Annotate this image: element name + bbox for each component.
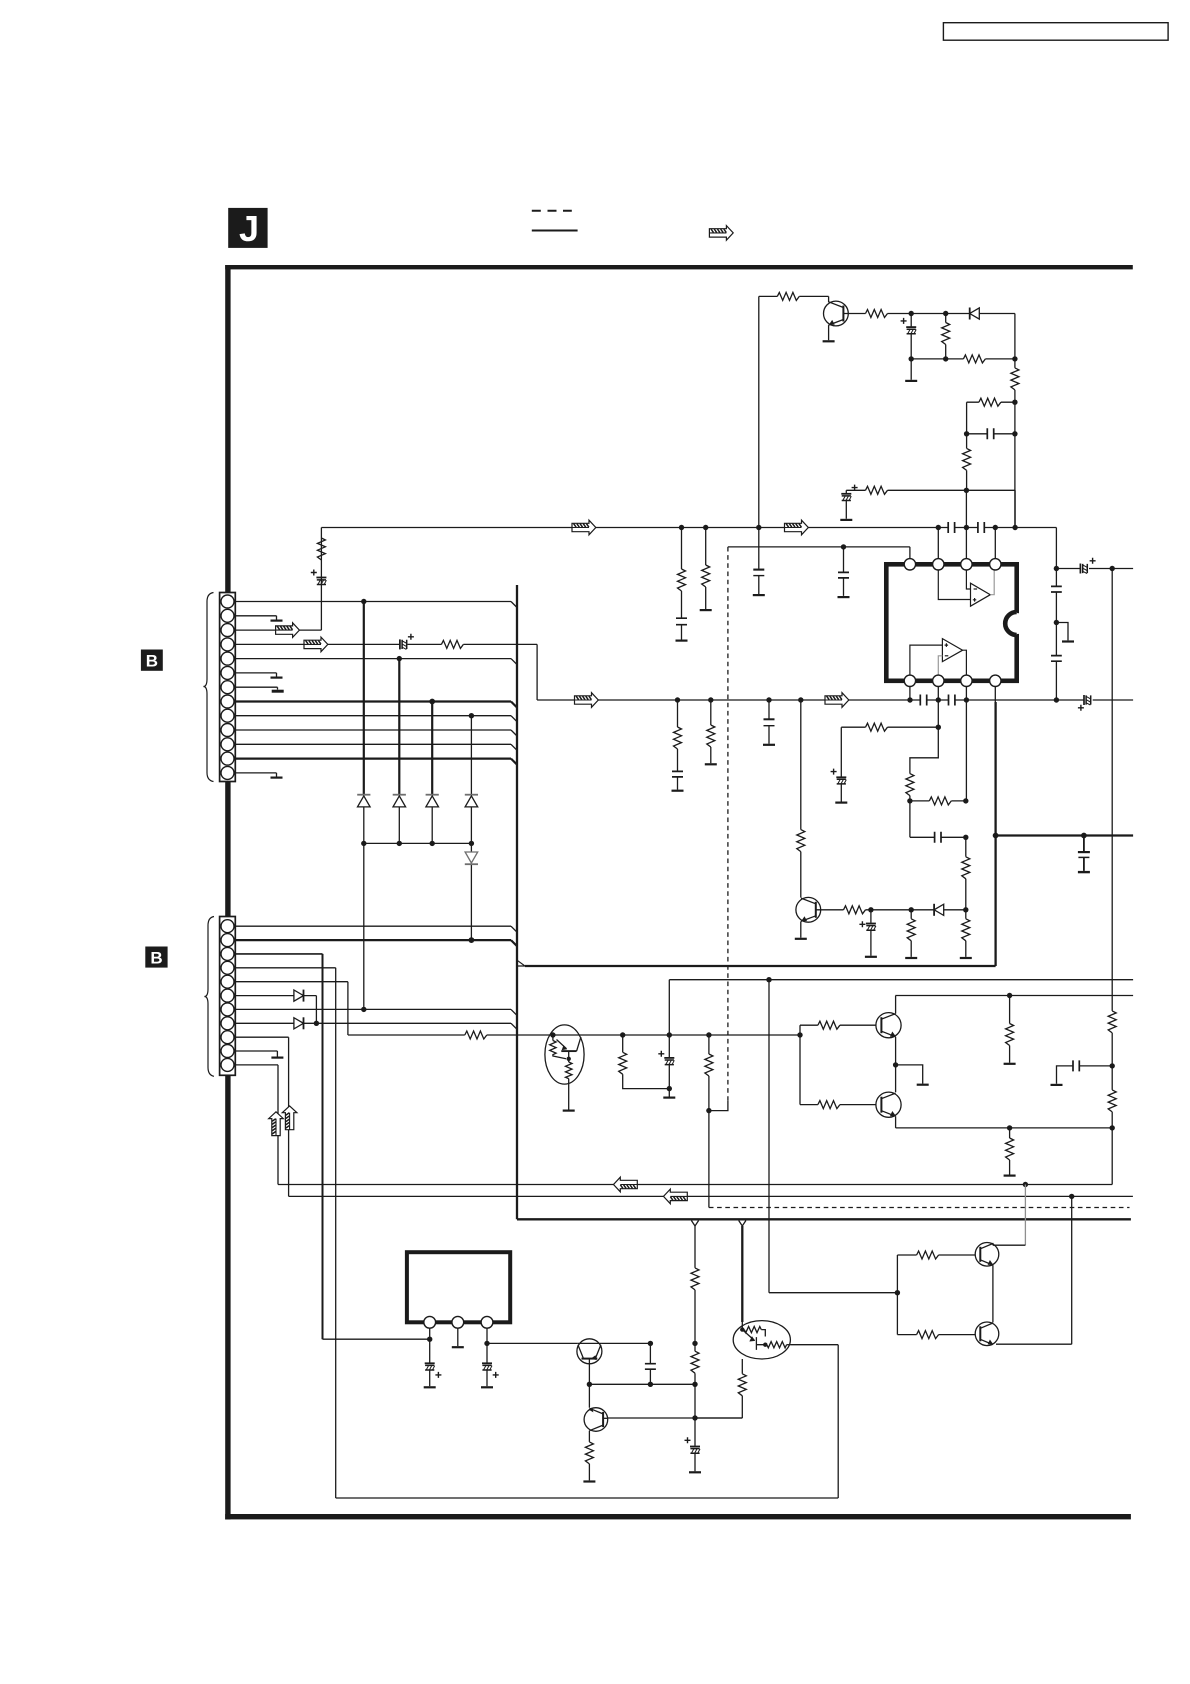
transistor Q6 xyxy=(796,897,844,922)
vertical wire from pin5 node xyxy=(398,659,400,794)
Q8 emitter to wire y=1127.9 xyxy=(895,1116,897,1128)
cap C14 in wire y=433.8 xyxy=(964,428,1015,439)
brace for connector B2 xyxy=(204,917,214,1077)
arrow left on wire y=1196.4 xyxy=(664,1189,688,1204)
vertical wire x=758.8 top xyxy=(758,296,760,527)
resistor R3 in wire y=490 xyxy=(866,486,888,494)
stub with bar at IC right xyxy=(1056,623,1074,642)
diode D7 (points left) xyxy=(970,308,980,320)
Q7 collector to rail xyxy=(895,996,897,1014)
wire segment xyxy=(431,807,433,844)
digital transistor Q2 (oval) xyxy=(733,1321,790,1359)
base ladder x=897.4 xyxy=(895,1255,900,1335)
resistor R2 in pin4 wire xyxy=(441,640,463,648)
wire B1 pin3 xyxy=(235,629,321,631)
wire y=1184.5 xyxy=(278,1182,1112,1187)
connector B2 pin circles xyxy=(221,920,234,1072)
wire segment xyxy=(470,807,472,844)
link Q11 emitter to Q12 xyxy=(588,1384,590,1407)
chain from IC pin2 bottom: x937 to x910 xyxy=(907,725,941,838)
branch x=669.3 down to cap xyxy=(668,980,670,1035)
resistor R27 chain at x=705.7 xyxy=(700,528,712,611)
arrow on wire y=700 left xyxy=(575,693,599,708)
IC notch xyxy=(1005,612,1027,635)
wire y=1127.9 xyxy=(896,1125,1115,1130)
electrolytic C1 (pin3 string) xyxy=(311,570,327,585)
long return wire y=1498 xyxy=(336,1497,839,1499)
connector B2 body xyxy=(220,917,236,1076)
wire B2 pin2 (bold) xyxy=(235,937,517,946)
wire B2 pin8 with diode D9 xyxy=(235,1017,517,1029)
link to Q9 collector xyxy=(993,1243,1026,1245)
wire Q6 base net xyxy=(866,907,934,912)
shield dashed line horizontal xyxy=(709,1207,1130,1209)
electrolytic C5 at x=846.3 xyxy=(840,485,857,520)
svg-text:B: B xyxy=(150,948,162,967)
vertical wire from pin9 node xyxy=(470,716,472,794)
diode D4 xyxy=(465,795,478,807)
rail y=1035 xyxy=(348,1032,803,1037)
series capacitor C29 y=837.3 xyxy=(910,832,966,843)
cap C15 at x=1083.9 xyxy=(1078,836,1090,873)
resistor R1 (pin3 string) xyxy=(317,528,325,631)
thick rail y=835.5 xyxy=(993,833,1133,839)
resistor R9 y=800.9 xyxy=(910,797,966,805)
vertical x=1112.2 long xyxy=(1111,569,1113,1011)
series cap C3 (IC top left) xyxy=(948,522,954,533)
wire y=1343.4 box pin3 to Q11 xyxy=(487,1341,698,1346)
resistor R22 at x=1112.2 upper xyxy=(1108,1011,1116,1069)
diode D2 xyxy=(393,795,406,807)
brace for connector B1 xyxy=(203,593,213,782)
wire B2 pin7 xyxy=(235,1007,517,1016)
Q9-Q10 link xyxy=(992,1265,994,1322)
wire B2 pin9 xyxy=(235,1037,288,1196)
Q6 emitter ground xyxy=(795,921,807,938)
Q5 emitter ground xyxy=(823,325,835,341)
IC U1 body xyxy=(886,564,1016,681)
transistor Q11 (rotated) xyxy=(577,1339,651,1385)
connector B1 body xyxy=(220,593,236,782)
resistor R28 + capacitor C27 chain at x=677.5 xyxy=(672,700,684,791)
wire y=1418 Q12 base xyxy=(608,1417,743,1419)
legend solid-line sample xyxy=(532,230,578,232)
wire diode to corner x=1014.9 xyxy=(979,314,1015,359)
electrolytic C12 at x=841.3 xyxy=(831,727,848,802)
IC pin leads top xyxy=(938,490,995,558)
wire y=979.7 xyxy=(669,977,1133,982)
label B (connector B2) xyxy=(145,947,167,968)
series cap C4 (IC top right) xyxy=(978,522,984,533)
label B (connector B1) xyxy=(141,650,163,671)
wire to x=965.8 xyxy=(944,909,966,911)
wire y=1344.2 to Q10 emitter xyxy=(996,1343,1072,1345)
wire y=1339.2 box pin1 xyxy=(323,1337,433,1342)
thick rail y=966 from bus xyxy=(517,960,996,966)
arrow on pin4 wire xyxy=(304,637,328,652)
arrow on pin3 wire xyxy=(276,623,300,638)
resistor R12 at x=945.7 xyxy=(942,314,950,359)
series cap C9 (IC bottom right) xyxy=(949,695,955,706)
diode D5 (points down) xyxy=(465,843,478,940)
vertical x=335.7 down xyxy=(335,968,337,1498)
cap C17 y=1065.9 with stub xyxy=(1051,1060,1113,1085)
resistor R11 at Q5 base xyxy=(866,310,888,318)
wire from x=769 down to base ladder xyxy=(769,980,897,1293)
wire B1 pin9 xyxy=(235,713,517,722)
thick lead to Q2 xyxy=(741,1226,743,1322)
resistor above transistor Q6 xyxy=(797,700,805,898)
arrow on wire y=527 left xyxy=(572,520,596,535)
IC op-amp B xyxy=(910,639,967,675)
shield dashed line vertical xyxy=(727,547,729,1101)
wire y=1196.4 xyxy=(289,1194,1133,1199)
cap C6 at x=843.5 xyxy=(838,547,850,597)
diode D6 (points left) xyxy=(934,904,944,916)
wire segment xyxy=(363,807,365,844)
border frame of schematic block J xyxy=(225,265,1133,1520)
electrolytic C21 at x=695 bottom xyxy=(685,1418,702,1472)
arrow up on x=278 xyxy=(269,1112,284,1136)
resistor R20 at x=1009.6 upper xyxy=(1004,996,1016,1064)
wire B2 pin5 to y=1035 rail xyxy=(235,982,348,1035)
legend signal-arrow sample xyxy=(709,226,733,241)
electrolytic C2 in pin4 wire xyxy=(400,634,414,650)
series cap C8 (IC bottom left) xyxy=(920,695,926,706)
resistor R25 at x=695 middle xyxy=(691,1343,699,1384)
box pin1 lead xyxy=(429,1328,431,1362)
capacitor C26 chain at x=769 xyxy=(763,700,775,745)
wire B1 pin12 (bold) xyxy=(235,759,517,765)
resistor R17 in rail y=1035 xyxy=(465,1031,487,1039)
thick bus corner to bottom rail xyxy=(517,1218,1131,1220)
tap triangle on bottom rail x=695 xyxy=(691,1221,698,1227)
base ladder x=800 xyxy=(800,1021,876,1108)
Q2 output wire to right and down xyxy=(790,1345,838,1498)
box pin3 lead xyxy=(484,1328,489,1362)
vertical x=1071.7 down xyxy=(1071,1196,1073,1344)
wire B2 pin11 xyxy=(235,1065,278,1185)
component box (bottom) xyxy=(407,1252,510,1322)
link x=695 down xyxy=(692,1384,697,1420)
diode D1 xyxy=(357,795,370,807)
capacitor C24 chain x=1056.4 upper xyxy=(1051,528,1062,626)
resistor R10 top-left of Q5 xyxy=(759,292,829,302)
wire B1 pin8 (bold) xyxy=(235,699,517,708)
wire B1 pin1 xyxy=(235,599,517,608)
wire segment xyxy=(398,807,400,844)
electrolytic C16 at x=669.3 xyxy=(658,1035,675,1098)
Q12 emitter resistor R xyxy=(583,1431,595,1482)
resistor R6 at x=965.8 lower xyxy=(960,910,972,958)
electrolytic C18 below box pin1 xyxy=(424,1363,442,1387)
cap C20 at x=650.4 xyxy=(645,1343,656,1384)
transistor Q12 xyxy=(584,1408,608,1432)
transistor Q7 xyxy=(876,1013,901,1038)
base resistor R of Q9 xyxy=(897,1251,975,1259)
Q7 emitter node xyxy=(893,1037,898,1092)
wire Q5 base to diode xyxy=(888,311,970,316)
resistor R26 + capacitor C22 chain at x=681.5 xyxy=(676,528,688,641)
resistor R23 at x=1112.2 lower xyxy=(1108,1066,1116,1185)
wire y=1384.3 xyxy=(587,1382,698,1387)
resistor R5 at x=911.2 xyxy=(905,910,917,958)
resistor R7 at x=965.8 upper xyxy=(962,798,970,912)
vertical x=322.5 to bottom box xyxy=(322,954,324,1339)
wire B2 pin6 with diode D8 xyxy=(235,990,316,1024)
resistor R16 x=966.6 to wire y=490 xyxy=(963,434,971,491)
IC pin circles xyxy=(904,559,1001,687)
gray link wire xyxy=(1024,1185,1026,1246)
box pin circles xyxy=(424,1316,493,1328)
title box top right xyxy=(943,23,1168,41)
electrolytic C19 below box pin3 xyxy=(481,1363,499,1387)
long wire y=700 under IC xyxy=(537,697,1133,702)
resistor R21 at x=1009.6 lower xyxy=(1004,1128,1016,1176)
wire B1 pin13 to ground xyxy=(235,773,282,778)
wire y=547 to IC pin xyxy=(728,544,910,558)
transistor Q5 xyxy=(824,301,866,326)
resistor R24 at x=695 top xyxy=(691,1226,699,1343)
vertical wire from pin1 node xyxy=(363,602,365,795)
diode D3 xyxy=(426,795,439,807)
resistor R4 at Q6 base xyxy=(844,906,866,914)
arrow on wire y=700 right xyxy=(825,693,849,708)
tap triangle on bottom rail x=742.3 xyxy=(739,1221,746,1227)
wire y=490 xyxy=(846,488,1015,528)
bus wire vertical xyxy=(516,585,518,1219)
stub with bar at Q7 emitter xyxy=(896,1065,929,1085)
wire y=568.5 right of IC xyxy=(1054,566,1133,571)
digital transistor Q1 (oval) xyxy=(545,1025,584,1111)
arrow on wire y=527 right xyxy=(785,520,809,535)
resistor R13 in wire y=358.9 xyxy=(963,355,985,363)
transistor Q9 xyxy=(975,1243,999,1267)
arrow up on x=288.6 xyxy=(282,1106,297,1130)
electrolytic C10 in wire y=700 right xyxy=(1078,695,1091,711)
wire B1 pin5 xyxy=(235,656,517,665)
resistor R15 in wire y=402.2 xyxy=(967,398,1015,434)
wire B1 pin7 to ground xyxy=(235,687,283,691)
R chain at x=710.8 xyxy=(705,700,717,764)
wire B1 pin6 to ground xyxy=(235,673,282,678)
IC pin leads bottom xyxy=(910,687,995,801)
wire B1 pin4 xyxy=(235,644,537,700)
box pin2 ground xyxy=(452,1328,464,1347)
resistor R8 at x=909.9 xyxy=(906,774,914,796)
capacitor C23 at x=758.8 xyxy=(753,528,765,596)
wire B2 pin10 to ground xyxy=(235,1051,283,1058)
electrolytic C11 at x=870.9 xyxy=(859,910,877,957)
capacitor C25 chain x=1056.4 lower xyxy=(1051,623,1062,701)
wire y=358.9 xyxy=(909,356,1018,361)
wire y=727 with resistor xyxy=(841,723,938,731)
electrolytic C13 at x=911.2 xyxy=(901,314,917,359)
base resistor R of Q10 xyxy=(897,1331,975,1339)
ground stub below x=911.2 xyxy=(905,359,917,381)
svg-text:B: B xyxy=(146,652,158,671)
wire B2 pin4 xyxy=(235,967,335,969)
Q2 emitter chain down xyxy=(695,1359,746,1418)
wire B1 pin11 xyxy=(235,744,517,750)
resistor R14 at x=1014.9 xyxy=(1011,359,1019,528)
electrolytic C7 in wire y=568.5 xyxy=(1080,558,1095,574)
signal wire y=527 xyxy=(321,525,1056,530)
section label J xyxy=(228,208,267,249)
resistor R19 at x=708.9 xyxy=(705,1035,713,1208)
wire B1 pin10 xyxy=(235,730,517,736)
transistor Q10 xyxy=(975,1322,999,1346)
transistor Q8 xyxy=(876,1092,901,1117)
wire down to B2 pin7 rail xyxy=(363,843,365,1009)
shield link to node xyxy=(709,1101,728,1111)
legend dashed-line sample xyxy=(532,210,572,212)
wire y=995.5 xyxy=(896,993,1134,998)
arrow left on wire y=1184.5 xyxy=(614,1177,638,1192)
svg-text:J: J xyxy=(239,208,259,249)
vertical wire from pin8 node xyxy=(431,702,433,795)
thick rail up x=995.6 xyxy=(994,702,996,966)
connector B1 pin circles xyxy=(221,595,234,779)
wire B1 pin2 to ground xyxy=(235,616,282,621)
IC op-amp A xyxy=(938,571,994,607)
diode common rail xyxy=(361,841,474,846)
wire B2 pin1 xyxy=(235,926,517,932)
wire B2 pin3 xyxy=(235,953,322,955)
resistor R18 at x=622.7 xyxy=(619,1035,670,1089)
